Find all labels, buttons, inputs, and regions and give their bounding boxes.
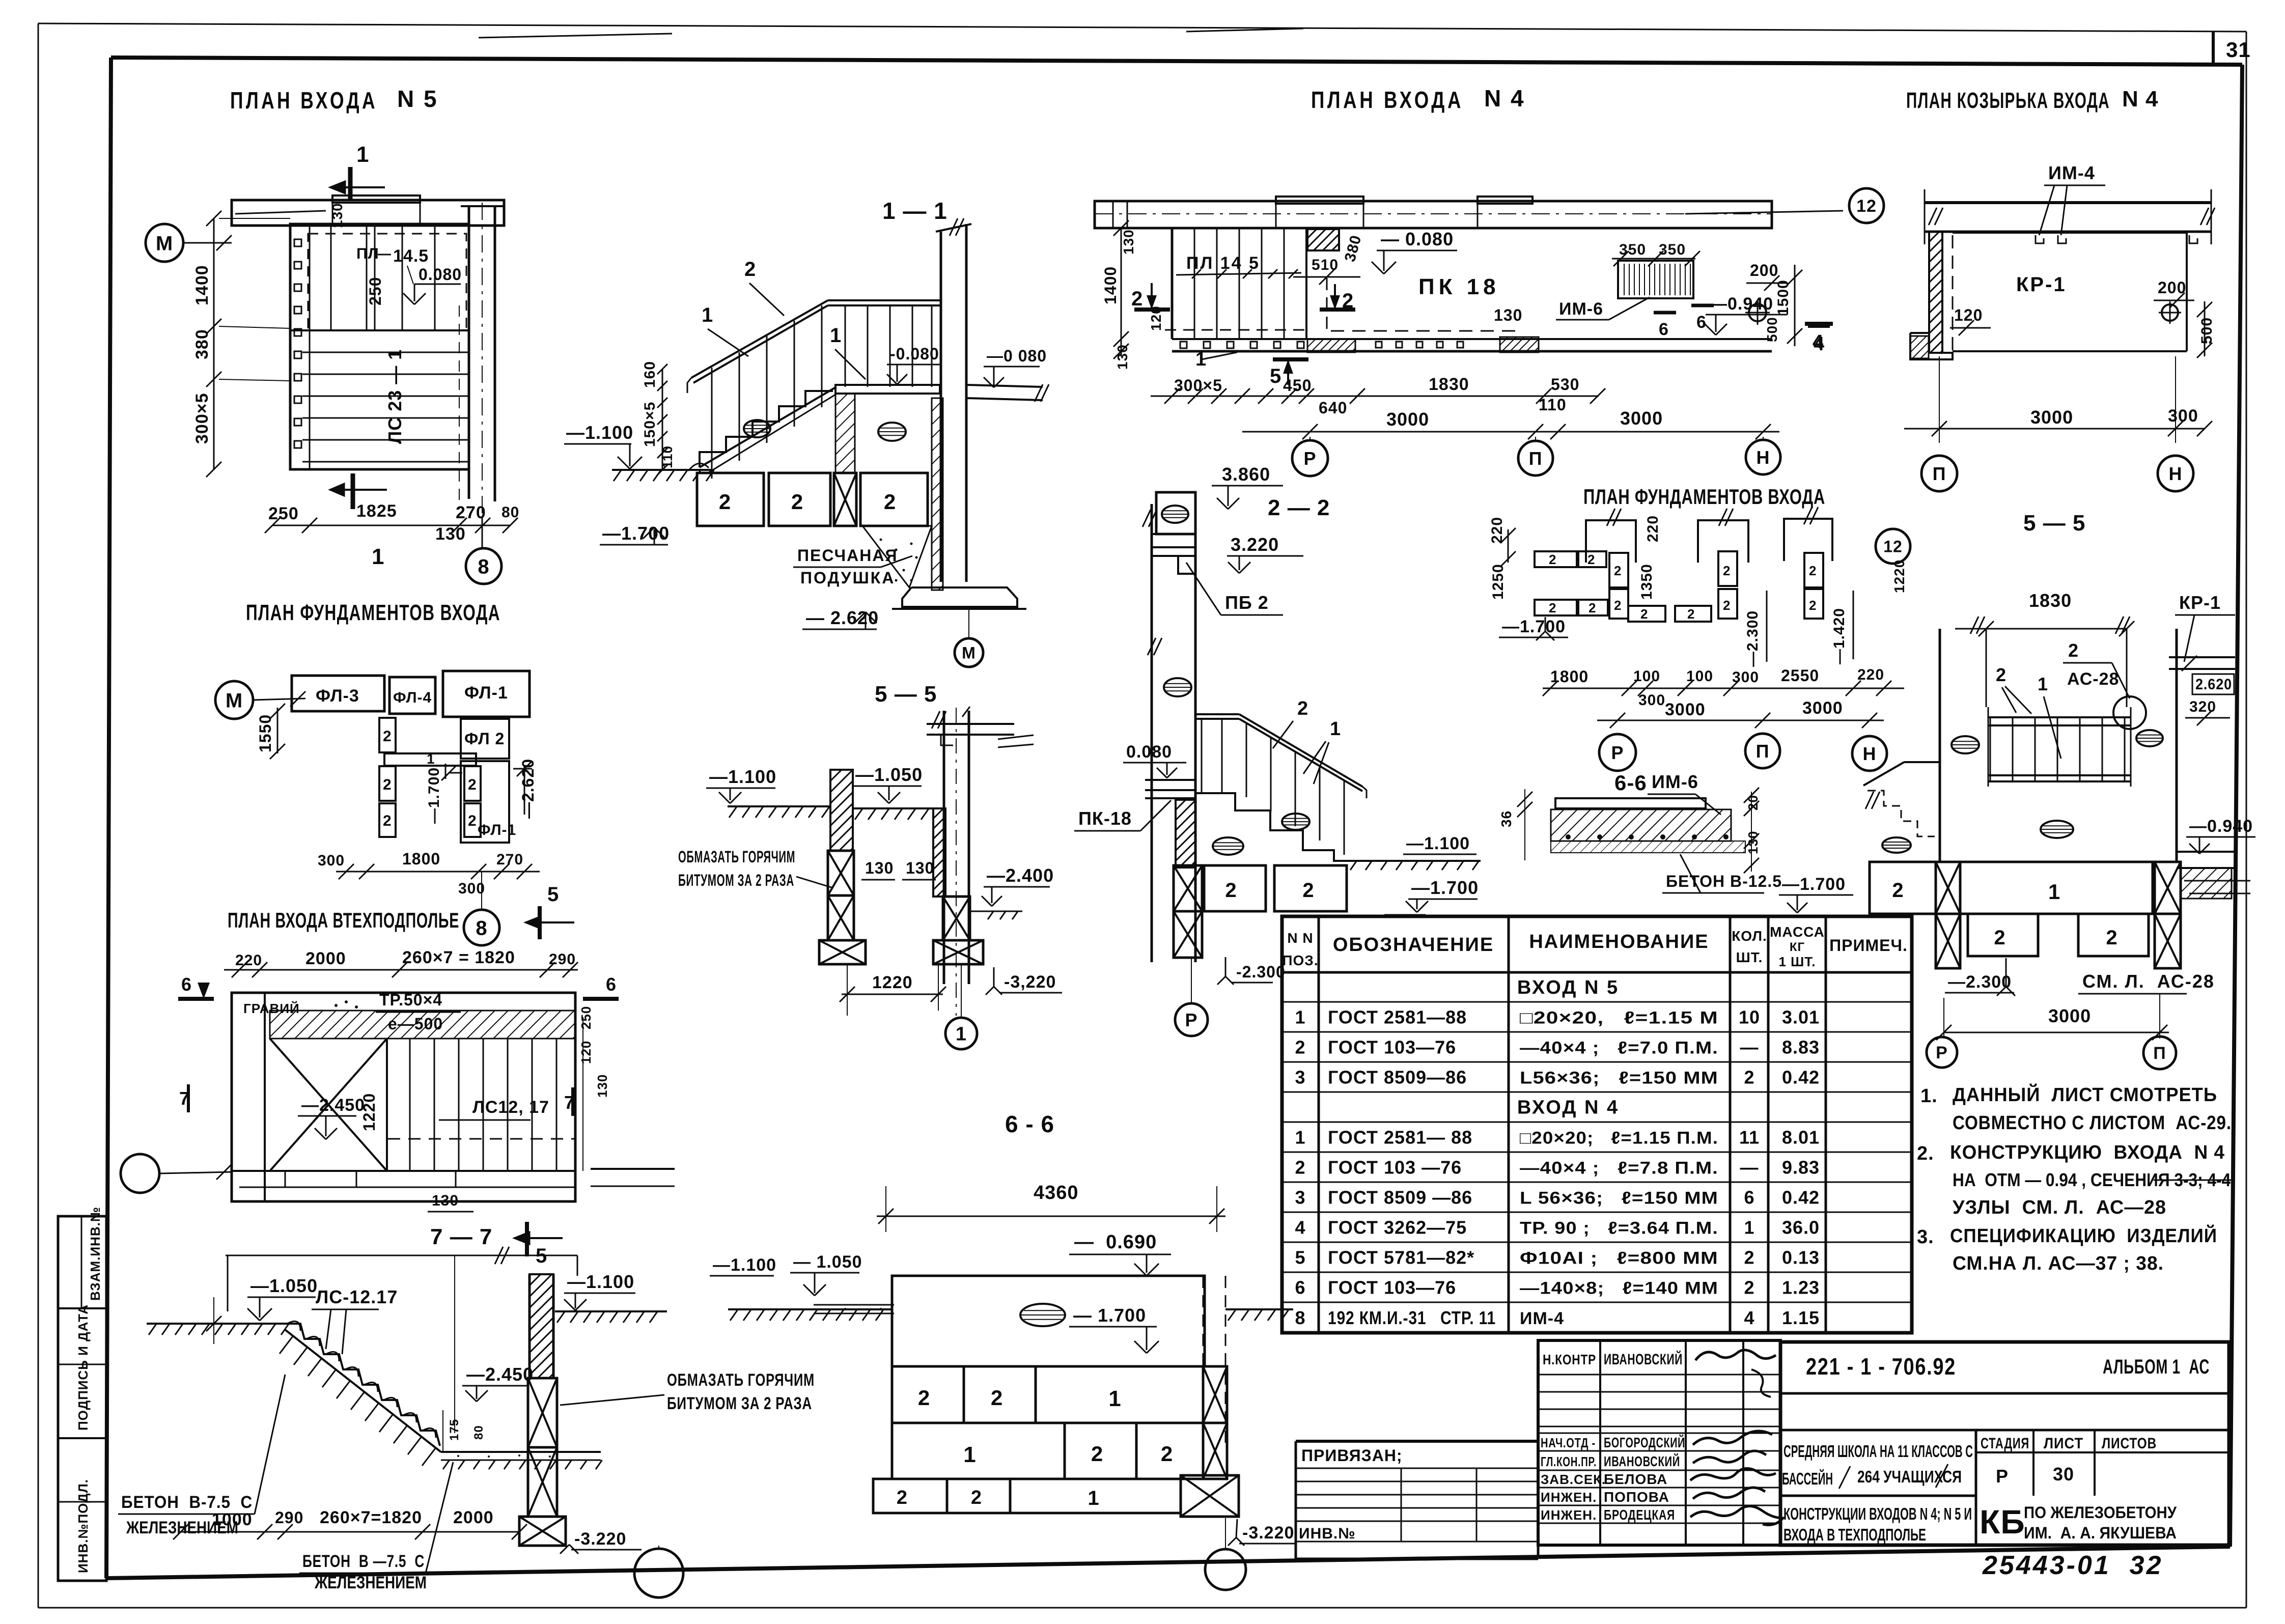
block row 1 (6-6) [892,1366,964,1423]
svg-text:1: 1 [1088,1487,1099,1509]
canopy panel КР-1 [1953,232,2187,234]
canopy left foot [1910,333,1953,359]
svg-text:500: 500 [2198,317,2215,344]
right ledge (5-5 right) [2177,851,2235,853]
svg-text:БЕТОН В-12.5: БЕТОН В-12.5 [1666,872,1782,890]
pit outline [232,993,575,1201]
svg-text:1: 1 [1744,1217,1754,1238]
right pit wall hatched (5-5) [933,808,945,897]
svg-text:Н: Н [1757,447,1770,468]
svg-text:ИМ. А. А. ЯКУШЕВА: ИМ. А. А. ЯКУШЕВА [2024,1524,2177,1542]
svg-text:2: 2 [1723,598,1731,613]
svg-text:—40×4 ; ℓ=7.8 П.М.: —40×4 ; ℓ=7.8 П.М. [1520,1158,1718,1178]
svg-text:270: 270 [496,851,523,868]
svg-text:221 - 1 - 706.92: 221 - 1 - 706.92 [1806,1353,1956,1380]
svg-text:ГОСТ 103 —76: ГОСТ 103 —76 [1328,1157,1462,1178]
svg-text:—1.100: —1.100 [566,422,633,443]
svg-text:6 - 6: 6 - 6 [1005,1111,1054,1137]
svg-text:-3,220: -3,220 [1004,972,1056,992]
svg-text:530: 530 [1551,375,1579,394]
svg-text:ПЛАН ФУНДАМЕНТОВ ВХОДА: ПЛАН ФУНДАМЕНТОВ ВХОДА [1583,485,1825,509]
svg-text:300: 300 [1638,692,1665,709]
svg-text:3.860: 3.860 [1222,464,1270,485]
svg-text:—2.450: —2.450 [466,1364,534,1385]
svg-text:80: 80 [472,1425,486,1440]
svg-text:130: 130 [865,859,894,877]
svg-text:СРЕДНЯЯ ШКОЛА НА 11 КЛАССОВ С: СРЕДНЯЯ ШКОЛА НА 11 КЛАССОВ С [1784,1442,1973,1461]
svg-text:СТАДИЯ: СТАДИЯ [1981,1435,2029,1452]
svg-text:— 0.080: — 0.080 [1381,229,1454,249]
ground line left (7-7) [147,1323,285,1325]
svg-text:П: П [1756,741,1770,762]
stair stringer [700,387,835,467]
dim 150x5/160/110 [662,369,663,470]
svg-text:150×5: 150×5 [642,402,658,447]
svg-text:ПЛ 14 5: ПЛ 14 5 [1186,254,1260,273]
block ФЛ 2 [461,719,509,759]
svg-text:1830: 1830 [1429,375,1469,394]
svg-text:130: 130 [432,1192,459,1209]
ground middle (5-5) [853,807,933,809]
railing top rail flat [828,299,940,301]
svg-text:2: 2 [1549,600,1556,615]
svg-text:2: 2 [1687,606,1695,622]
svg-text:КР-1: КР-1 [2179,592,2221,613]
svg-text:—1.420: —1.420 [1831,608,1848,664]
wall band top (plan 4) [1095,201,1772,228]
slab plate (6-6) [1555,798,1706,808]
svg-text:—1.700: —1.700 [426,767,442,824]
svg-text:2: 2 [1589,600,1596,615]
svg-text:2: 2 [1809,598,1817,613]
walkway strip (6-6) [814,1304,894,1306]
svg-text:ЛС-12.17: ЛС-12.17 [316,1286,398,1307]
svg-text:2: 2 [383,728,392,745]
svg-text:КОЛ.: КОЛ. [1732,928,1767,944]
ground left (5-5) [728,805,830,807]
svg-text:3: 3 [1295,1187,1305,1208]
anchor plates left edge [294,239,301,246]
svg-text:—2.300: —2.300 [1948,972,2012,992]
svg-text:L 56×36; ℓ=150 ММ: L 56×36; ℓ=150 ММ [1520,1188,1718,1208]
svg-text:250: 250 [578,1006,594,1029]
svg-text:1250: 1250 [1490,564,1507,600]
slab right of wall [966,385,1043,387]
svg-text:ГОСТ 2581— 88: ГОСТ 2581— 88 [1328,1127,1472,1147]
svg-text:14.5: 14.5 [393,246,429,266]
svg-text:2: 2 [744,258,756,281]
svg-text:—1.100: —1.100 [1406,834,1470,853]
svg-text:300×5: 300×5 [1174,376,1222,395]
svg-text:-2.300: -2.300 [1236,963,1286,981]
svg-text:НАЧ.ОТД -: НАЧ.ОТД - [1541,1435,1596,1450]
grid circles П/Н (canopy) [1921,456,1957,491]
tread lines (pit) [409,1039,411,1171]
svg-text:350: 350 [1619,241,1646,258]
svg-text:2.620: 2.620 [2195,676,2232,693]
boxed 2.620 (5-5 right) [2192,674,2234,694]
svg-text:4: 4 [1813,331,1824,353]
svg-text:N 4: N 4 [1484,85,1525,111]
svg-text:КР-1: КР-1 [2016,273,2067,296]
svg-text:2: 2 [1587,552,1595,567]
svg-text:250: 250 [268,504,299,523]
wall band top (plan 5) [232,200,504,226]
svg-text:— 2.620: — 2.620 [806,607,879,628]
svg-text:СПЕЦИФИКАЦИЮ ИЗДЕЛИЙ: СПЕЦИФИКАЦИЮ ИЗДЕЛИЙ [1950,1224,2217,1247]
small blocks 2 (foundation left) [379,718,396,752]
svg-text:ВХОД N 5: ВХОД N 5 [1517,977,1619,998]
svg-text:2: 2 [971,1487,982,1508]
svg-text:1.23: 1.23 [1782,1277,1820,1298]
sheet number box 31 [2212,32,2215,64]
svg-text:80: 80 [501,504,519,521]
svg-text:КГ: КГ [1790,940,1805,954]
svg-text:N 5: N 5 [397,86,438,112]
svg-text:ГОСТ 3262—75: ГОСТ 3262—75 [1328,1217,1467,1238]
hatched wall under platform [835,394,855,473]
svg-text:ВЗАМ.ИНВ.№: ВЗАМ.ИНВ.№ [88,1207,103,1301]
svg-text:ПОДПИСЬ И ДАТА: ПОДПИСЬ И ДАТА [75,1304,91,1431]
left wall X-boxes (5-5) [828,851,854,895]
svg-text:БАССЕЙН: БАССЕЙН [1782,1469,1833,1488]
svg-text:0.080: 0.080 [1126,742,1172,762]
svg-text:6: 6 [1659,320,1669,339]
svg-text:5 — 5: 5 — 5 [2023,511,2085,536]
svg-text:1: 1 [2048,880,2060,904]
svg-text:Р: Р [1185,1010,1197,1030]
svg-text:2: 2 [918,1386,930,1410]
svg-text:3000: 3000 [2048,1005,2091,1026]
wall column (7-7) [530,1274,553,1378]
svg-text:1825: 1825 [356,501,397,521]
svg-text:5: 5 [547,883,559,906]
svg-text:СМ. Л. АС-28: СМ. Л. АС-28 [2082,971,2215,992]
svg-text:300: 300 [1732,669,1759,686]
svg-text:1 — 1: 1 — 1 [882,198,948,224]
svg-text:ПОДУШКА: ПОДУШКА [800,569,895,587]
step noses (7-7) [287,1321,300,1331]
svg-text:Р: Р [1996,1466,2009,1487]
svg-text:—1.700: —1.700 [1502,617,1566,636]
grid circle 1 (5-5) [945,1018,977,1049]
svg-text:АС-28: АС-28 [2067,669,2119,689]
svg-text:2: 2 [1744,1067,1754,1087]
svg-text:ПОЗ.: ПОЗ. [1282,953,1318,968]
section marks 6 (pit sides) [178,997,214,1001]
svg-text:1: 1 [1295,1127,1305,1147]
svg-text:—2.620: —2.620 [519,759,537,819]
svg-text:ФЛ-1: ФЛ-1 [478,822,516,838]
svg-text:2: 2 [1091,1442,1103,1466]
svg-text:БЕТОН В —7.5 С: БЕТОН В —7.5 С [302,1552,425,1571]
foundation blocks row (1-1) [697,473,764,526]
svg-text:ПЛАН ВХОДА: ПЛАН ВХОДА [230,87,378,114]
svg-text:□20×20; ℓ=1.15 П.М.: □20×20; ℓ=1.15 П.М. [1520,1128,1718,1147]
svg-text:3.01: 3.01 [1782,1006,1820,1027]
bottom dim chain 250/1825/270/80 [272,525,510,526]
svg-text:-3.220: -3.220 [1242,1523,1294,1543]
svg-text:2: 2 [1994,927,2005,949]
svg-text:2: 2 [1640,606,1648,622]
railing plan (5-5 right) [1988,716,2131,718]
block ФЛ-1 bottom [461,761,509,843]
dim 500 rotated (canopy) [2204,301,2206,356]
svg-text:ЛС12, 17: ЛС12, 17 [472,1098,549,1117]
svg-text:3000: 3000 [1802,698,1843,718]
svg-text:500: 500 [1764,317,1780,342]
section mark 1 (top) [348,167,353,201]
svg-text:6: 6 [1696,313,1707,332]
svg-text:Н: Н [1863,743,1877,764]
svg-text:СОВМЕСТНО С ЛИСТОМ АС-29.: СОВМЕСТНО С ЛИСТОМ АС-29. [1953,1112,2232,1134]
dim 1500 rotated (plan 4 right) [1794,265,1796,346]
svg-text:УЗЛЫ СМ. Л. АС—28: УЗЛЫ СМ. Л. АС—28 [1953,1197,2166,1218]
svg-text:БЕЛОВА: БЕЛОВА [1604,1471,1667,1487]
svg-text:ФЛ-4: ФЛ-4 [393,689,432,706]
svg-text:П: П [1933,463,1946,484]
svg-text:2: 2 [1723,563,1731,578]
svg-text:1500: 1500 [1775,279,1792,316]
stadiya list listov box [1975,1430,1977,1545]
svg-text:БИТУМОМ ЗА 2 РАЗА: БИТУМОМ ЗА 2 РАЗА [678,871,794,889]
svg-text:2 — 2: 2 — 2 [1268,495,1330,520]
landing plank joints [330,226,332,330]
svg-text:2: 2 [991,1386,1003,1410]
ground line left + level -1.100 [612,469,712,471]
svg-text:—1.100: —1.100 [709,766,776,787]
grid circle 8 (foundation left) [464,910,499,945]
svg-text:5 — 5: 5 — 5 [875,682,937,707]
svg-text:4360: 4360 [1034,1182,1079,1203]
svg-text:ПЛ: ПЛ [356,245,379,262]
bar 1 (foundation left) [384,753,476,766]
svg-text:100: 100 [1686,668,1713,685]
svg-text:3000: 3000 [1665,700,1706,719]
svg-text:380: 380 [192,329,212,359]
svg-text:КОНСТРУКЦИИ ВХОДОВ N 4; N 5 И: КОНСТРУКЦИИ ВХОДОВ N 4; N 5 И [1784,1504,1972,1523]
svg-text:1350: 1350 [1638,564,1655,600]
section mark 4 (canopy) [1805,322,1833,326]
dim 3000/300 (canopy) [1904,428,2205,430]
svg-text:130: 130 [435,524,466,544]
svg-text:6: 6 [606,974,617,995]
left pit wall hatched (5-5) [830,770,853,851]
svg-text:200: 200 [2158,278,2186,297]
svg-text:ПК 18: ПК 18 [1418,274,1500,299]
svg-text:36: 36 [1498,810,1514,827]
svg-text:130: 130 [595,1074,610,1098]
svg-text:—1.700: —1.700 [1411,877,1479,898]
grid circle 12 (plan 4 right) [1685,211,1843,214]
svg-text:4: 4 [1295,1217,1305,1238]
svg-text:25443-01 32: 25443-01 32 [1982,1551,2163,1580]
svg-text:3: 3 [1295,1067,1305,1087]
svg-text:ЖЕЛЕЗНЕНИЕМ: ЖЕЛЕЗНЕНИЕМ [314,1573,427,1592]
svg-text:110: 110 [660,445,675,468]
svg-text:100: 100 [1633,668,1660,685]
outer thin border [38,23,2246,32]
svg-text:1: 1 [963,1442,976,1467]
svg-text:ИМ-6: ИМ-6 [1559,299,1603,319]
svg-text:Ф10АІ ; ℓ=800 ММ: Ф10АІ ; ℓ=800 ММ [1520,1248,1718,1268]
svg-text:220: 220 [1645,515,1661,542]
svg-text:Р: Р [1611,742,1624,763]
left dim chain (plan 4) [1121,228,1122,356]
anchor hooks on slab [2036,235,2044,243]
svg-text:ПРИВЯЗАН;: ПРИВЯЗАН; [1301,1446,1403,1465]
big circle bottom (7-7) [634,1549,683,1598]
scan artifact line top [479,34,672,38]
svg-text:ГЛ.КОН.ПР.: ГЛ.КОН.ПР. [1541,1454,1597,1469]
svg-text:6: 6 [1295,1277,1305,1298]
svg-text:12: 12 [1883,538,1903,556]
svg-text:510: 510 [1312,257,1339,273]
svg-text:ФЛ-1: ФЛ-1 [464,683,508,703]
svg-text:ОБМАЗАТЬ ГОРЯЧИМ: ОБМАЗАТЬ ГОРЯЧИМ [667,1370,815,1390]
svg-text:1: 1 [1295,1006,1305,1027]
svg-text:2: 2 [383,813,392,829]
svg-text:1.15: 1.15 [1782,1307,1820,1328]
dim 3000 (5-5 right) [1944,1032,2169,1033]
left dim chain 1400/380/300x5 [213,218,215,469]
svg-text:ПЛАН ФУНДАМЕНТОВ ВХОДА: ПЛАН ФУНДАМЕНТОВ ВХОДА [246,600,500,625]
svg-text:1550: 1550 [256,714,274,752]
svg-text:—2.400: —2.400 [987,865,1054,886]
svg-text:—1.100: —1.100 [567,1271,634,1292]
svg-text:1: 1 [830,324,842,347]
railing posts [711,368,713,479]
ground right (7-7) [555,1310,667,1312]
svg-text:1800: 1800 [1550,667,1589,686]
svg-text:2: 2 [791,490,803,514]
stair steps (section 1-1) [700,390,832,467]
svg-text:7 — 7: 7 — 7 [430,1224,492,1249]
svg-text:ПК-18: ПК-18 [1078,808,1132,829]
wall column (section 1-1) [940,232,942,582]
svg-text:П: П [1529,448,1543,469]
grid circles P/П (5-5 right) [1927,1037,1957,1068]
svg-text:—: — [1740,1037,1759,1057]
section mark 4 (plan 4) [1808,324,1830,328]
svg-text:М: М [156,232,173,255]
svg-text:БИТУМОМ ЗА 2 РАЗА: БИТУМОМ ЗА 2 РАЗА [667,1394,812,1413]
svg-text:12: 12 [1856,197,1877,216]
svg-text:—40×4 ; ℓ=7.0 П.М.: —40×4 ; ℓ=7.0 П.М. [1520,1038,1718,1057]
svg-text:ИНВ.№ПОДЛ.: ИНВ.№ПОДЛ. [75,1479,91,1573]
svg-text:3000: 3000 [2030,407,2073,428]
svg-text:130: 130 [1114,344,1130,370]
bottom circle (6-6) [1205,1549,1246,1590]
foundation row 2 (5-5 right) [1968,914,2038,956]
svg-text:31: 31 [2226,38,2251,62]
svg-text:2: 2 [1225,879,1237,902]
block ФЛ-4 [389,677,435,714]
ground left (6-6) [728,1308,892,1310]
title block small grid [1538,1340,1780,1545]
dashed line band (plan 4) [1331,330,1522,332]
material ellipses (2-2 stair) [1282,814,1309,830]
svg-text:— 1.050: — 1.050 [793,1252,862,1272]
material ellipses (5-5 right) [1952,736,1979,753]
svg-text:9.83: 9.83 [1782,1157,1820,1178]
hatched blocks band (plan 4) [1307,339,1355,352]
svg-text:Р: Р [1936,1043,1948,1062]
svg-text:—140×8; ℓ=140 ММ: —140×8; ℓ=140 ММ [1520,1278,1718,1298]
svg-text:1400: 1400 [192,265,212,305]
svg-text:1: 1 [2038,674,2048,694]
svg-text:ПЛАН КОЗЫРЬКА ВХОДА: ПЛАН КОЗЫРЬКА ВХОДА [1906,88,2110,113]
hat bracket 1 [1586,520,1636,563]
footing (1-1) [902,587,1017,607]
svg-text:220: 220 [235,952,262,969]
block ФЛ-3 [292,676,384,711]
svg-text:ПБ 2: ПБ 2 [1225,592,1269,613]
svg-text:5: 5 [1270,365,1281,387]
svg-text:Р: Р [1303,448,1316,469]
svg-text:120: 120 [1954,306,1983,324]
svg-text:320: 320 [2189,698,2216,715]
svg-text:8.83: 8.83 [1782,1037,1820,1057]
svg-text:110: 110 [1539,396,1567,414]
signatures (squiggles) [1695,1350,1776,1360]
dashed mid line (pit) [388,1138,574,1140]
fnd4 block group B [1718,551,1737,586]
svg-text:ГОСТ 2581—88: ГОСТ 2581—88 [1328,1006,1467,1027]
svg-text:ЛИСТ: ЛИСТ [2044,1435,2083,1452]
svg-text:2: 2 [1892,879,1904,902]
svg-text:ВХОДА В ТЕХПОДПОЛЬЕ: ВХОДА В ТЕХПОДПОЛЬЕ [1784,1525,1926,1544]
svg-text:130: 130 [1494,306,1522,324]
svg-text:2: 2 [383,776,392,793]
svg-text:ДАННЫЙ ЛИСТ СМОТРЕТЬ: ДАННЫЙ ЛИСТ СМОТРЕТЬ [1953,1083,2217,1106]
svg-text:192 КМ.И.-31 СТР. 11: 192 КМ.И.-31 СТР. 11 [1328,1307,1496,1328]
svg-text:1: 1 [956,1024,967,1045]
main frame [111,58,2242,65]
svg-text:ИМ-4: ИМ-4 [1520,1309,1564,1328]
svg-text:2: 2 [468,776,477,793]
section mark 5 (pit top) [538,906,542,939]
svg-text:250: 250 [366,277,384,305]
svg-text:2: 2 [1614,598,1622,613]
svg-text:11: 11 [1739,1127,1760,1147]
svg-text:0.080: 0.080 [419,265,462,284]
dim chain below plan 4 [1151,396,1599,397]
landing dashed contour [308,234,466,330]
svg-text:ГОСТ 103—76: ГОСТ 103—76 [1328,1037,1456,1057]
grid circle P (2-2) [1175,1003,1208,1036]
section mark 1 (bottom) [351,473,355,509]
svg-text:—: — [1740,1157,1759,1178]
svg-text:2: 2 [1549,552,1556,567]
svg-text:ПЛАН ВХОДА ВТЕХПОДПОЛЬЕ: ПЛАН ВХОДА ВТЕХПОДПОЛЬЕ [228,908,459,932]
svg-text:2: 2 [1996,664,2007,685]
svg-text:e—500: e—500 [388,1015,443,1033]
svg-text:Н.КОНТР: Н.КОНТР [1543,1352,1596,1367]
wall outline (5-5 right) [1939,629,1941,862]
svg-text:—1.050: —1.050 [855,764,923,785]
svg-text:0.13: 0.13 [1782,1247,1820,1268]
svg-text:N N: N N [1287,930,1313,946]
svg-text:290: 290 [549,951,576,968]
svg-text:264 УЧАЩИХСЯ: 264 УЧАЩИХСЯ [1857,1467,1962,1486]
foundation row (5-5 right) [1870,862,1936,914]
material ellipse + level -1.700 (6-6) [1020,1304,1065,1326]
svg-text:3.: 3. [1917,1226,1934,1248]
svg-text:2.: 2. [1917,1143,1934,1164]
svg-text:КБ: КБ [1980,1503,2025,1541]
dim 4360 [877,1216,1225,1217]
